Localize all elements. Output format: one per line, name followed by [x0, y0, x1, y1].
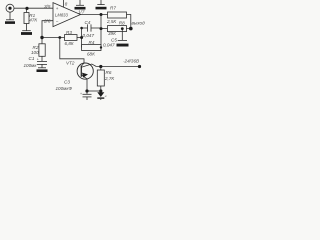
- svg-text:R8: R8: [119, 21, 125, 26]
- svg-text:-24/36В: -24/36В: [123, 58, 139, 63]
- svg-text:6,8К: 6,8К: [65, 41, 74, 46]
- svg-text:+: +: [37, 57, 39, 61]
- svg-text:2,5К: 2,5К: [106, 19, 116, 24]
- svg-text:LM833: LM833: [55, 12, 68, 17]
- svg-text:R7: R7: [110, 6, 116, 11]
- svg-text:2,7К: 2,7К: [104, 76, 114, 81]
- svg-text:−: −: [56, 19, 59, 24]
- svg-text:39К: 39К: [108, 31, 116, 36]
- svg-text:+: +: [80, 92, 82, 96]
- svg-text:0,047: 0,047: [103, 42, 115, 47]
- svg-text:C3: C3: [64, 79, 70, 84]
- svg-text:C4: C4: [85, 20, 91, 25]
- svg-text:8: 8: [65, 2, 68, 7]
- svg-text:VT2: VT2: [66, 61, 75, 66]
- svg-text:R3: R3: [66, 30, 72, 35]
- svg-text:68К: 68К: [87, 51, 95, 56]
- svg-text:R6: R6: [106, 70, 112, 75]
- svg-text:100: 100: [31, 50, 39, 55]
- svg-text:47К: 47К: [29, 17, 37, 22]
- svg-text:0,047: 0,047: [83, 33, 95, 38]
- svg-text:R4: R4: [89, 40, 95, 45]
- svg-text:C1: C1: [29, 56, 35, 61]
- svg-text:1/7: 1/7: [78, 10, 85, 15]
- svg-text:+: +: [56, 6, 59, 11]
- svg-text:выход: выход: [132, 21, 146, 26]
- svg-text:3/5: 3/5: [44, 4, 51, 9]
- svg-text:2/6: 2/6: [43, 19, 51, 24]
- svg-text:100мкФ: 100мкФ: [56, 86, 73, 91]
- svg-text:100мк: 100мк: [24, 63, 38, 68]
